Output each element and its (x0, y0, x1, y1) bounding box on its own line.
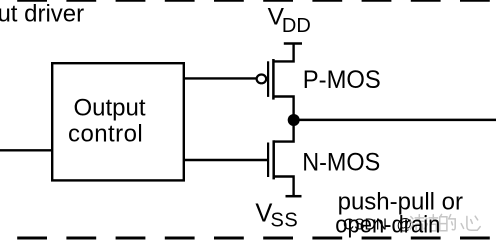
svg-text:Output: Output (74, 94, 146, 121)
svg-text:Output driver: Output driver (0, 0, 84, 27)
svg-text:SS: SS (271, 210, 299, 232)
svg-text:open-drain: open-drain (335, 212, 440, 239)
svg-text:P-MOS: P-MOS (303, 66, 381, 94)
svg-text:N-MOS: N-MOS (302, 148, 380, 176)
svg-text:control: control (68, 120, 143, 147)
svg-text:DD: DD (282, 15, 311, 37)
